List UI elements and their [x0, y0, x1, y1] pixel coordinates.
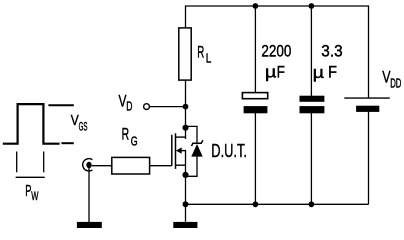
svg-text:D.U.T.: D.U.T.	[211, 140, 247, 161]
svg-text:DD: DD	[390, 76, 401, 90]
svg-text:µ: µ	[265, 62, 277, 81]
svg-text:µ: µ	[313, 63, 325, 82]
svg-text:W: W	[31, 189, 39, 203]
svg-text:V: V	[71, 112, 79, 129]
svg-text:G: G	[131, 135, 138, 149]
svg-text:L: L	[206, 51, 212, 65]
svg-text:F: F	[277, 62, 285, 81]
svg-text:R: R	[197, 44, 204, 62]
svg-text:3.3: 3.3	[321, 41, 342, 60]
svg-text:GS: GS	[79, 121, 88, 133]
svg-text:F: F	[328, 63, 337, 82]
svg-text:D: D	[126, 100, 132, 114]
svg-text:2200: 2200	[261, 41, 291, 60]
svg-text:R: R	[122, 126, 130, 144]
